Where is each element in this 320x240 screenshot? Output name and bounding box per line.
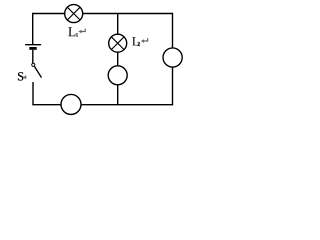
wire switch to bottom-left corner xyxy=(33,82,35,105)
label L2 xyxy=(132,37,140,46)
battery cell long plate xyxy=(25,44,41,46)
wire bottom rail xyxy=(33,104,173,106)
meter M1 (empty circle) on middle branch xyxy=(108,66,127,85)
wire middle branch xyxy=(117,14,119,105)
lamp L1 (circle with X) on top rail xyxy=(65,5,83,23)
wire top rail xyxy=(33,13,173,15)
battery cell short thick plate xyxy=(29,47,36,50)
switch S pivot circle xyxy=(32,63,35,66)
label L1 xyxy=(68,27,78,36)
wire left rail upper (to battery) xyxy=(32,13,34,44)
paragraph return mark after L1 xyxy=(78,29,85,34)
paragraph return mark after L2 xyxy=(141,38,148,43)
label S xyxy=(18,72,23,80)
meter M3 (empty circle) on bottom rail xyxy=(61,94,81,114)
wire battery to switch xyxy=(32,50,34,63)
gray anchor triangle after S xyxy=(23,75,27,79)
lamp L2 (circle with X) on middle branch xyxy=(109,34,127,52)
switch S blade (open) xyxy=(34,66,41,77)
wire right rail xyxy=(172,13,174,106)
meter M2 (empty circle) on right rail xyxy=(163,48,182,67)
